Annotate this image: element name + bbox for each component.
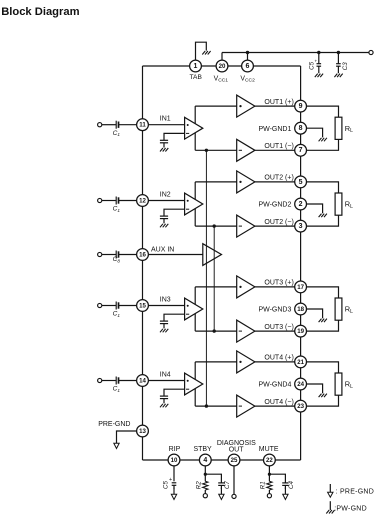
wire pin to RL (ch3) (307, 287, 339, 298)
wire TAB ground hook (196, 42, 207, 60)
op-amp AUX amp (203, 244, 222, 266)
wire RL to pin (ch4) (307, 395, 339, 406)
marker + preamp ch1 (187, 124, 189, 126)
marker - OUT4- (239, 405, 242, 407)
svg-text:4: 4 (203, 457, 207, 464)
wire cap to ground (ch3) (163, 324, 165, 329)
wire MUTE down (268, 466, 270, 481)
svg-text:Block Diagram: Block Diagram (1, 6, 79, 18)
wire terminal to C1 (ch2) (102, 200, 116, 202)
wire C4 down (284, 486, 286, 489)
wire bottom boundary edge (143, 459, 301, 461)
pin 25 DIAGNOSIS OUT (228, 454, 240, 466)
pin 14 IN4 (137, 375, 149, 387)
svg-text:RIP: RIP (169, 446, 181, 453)
svg-text:C4: C4 (288, 480, 295, 488)
wire preamp output connector (ch1) (194, 106, 196, 150)
node input terminal IN2 (98, 198, 102, 202)
wire upper rail (ch3) (195, 286, 237, 288)
svg-text:2: 2 (299, 201, 303, 208)
pin 8 PW-GND1 (295, 122, 307, 134)
marker + preamp ch3 (187, 305, 189, 307)
wire pin to RL (ch4) (307, 362, 339, 373)
svg-text:IN4: IN4 (160, 371, 171, 378)
capacitor C1 input coupling ch4 (116, 377, 118, 385)
node MUTE control terminal (267, 494, 271, 498)
svg-text:R1: R1 (259, 481, 266, 489)
ground PW-GND1 (319, 138, 327, 142)
ground PW-GND feedback ch2 (160, 224, 168, 228)
svg-text:14: 14 (139, 377, 146, 384)
svg-text:OUT4 (+): OUT4 (+) (264, 355, 293, 362)
node junction cap C5 (317, 51, 320, 54)
op-amp OUT4- power amp (237, 395, 255, 417)
ground PRE-GND at RIP (171, 488, 176, 500)
svg-text:5: 5 (299, 179, 303, 186)
svg-text:7: 7 (299, 147, 303, 154)
node STBY control terminal (203, 494, 207, 498)
wire OUT4+ to pin (255, 361, 295, 363)
capacitor feedback ch3 (160, 321, 168, 324)
op-amp OUT3+ power amp (237, 276, 255, 298)
capacitor C1 input coupling ch2 (116, 197, 118, 205)
svg-text:PW-GND2: PW-GND2 (258, 202, 291, 209)
wire cap to ground (ch2) (163, 219, 165, 224)
wire OUT3- to pin (255, 330, 295, 332)
wire lower rail (ch3) (195, 330, 237, 332)
svg-text::PW-GND: :PW-GND (334, 505, 367, 512)
op-amp OUT4+ power amp (237, 351, 255, 373)
wire OUT4- to pin (255, 405, 295, 407)
marker - preamp ch4 (186, 388, 189, 390)
wire PW-GND3 stub (307, 309, 323, 318)
capacitor feedback ch2 (160, 216, 168, 219)
svg-text:13: 13 (139, 428, 146, 435)
op-amp OUT2+ power amp (237, 171, 255, 193)
svg-text:3: 3 (299, 223, 303, 230)
svg-text:IN3: IN3 (160, 296, 171, 303)
resistor RL ch2 (335, 193, 342, 215)
op-amp preamp A3 (185, 298, 203, 320)
wire STBY to C7 (205, 474, 221, 482)
capacitor C7 (218, 483, 224, 486)
svg-text:C5: C5 (308, 61, 315, 69)
svg-text:+: + (169, 477, 172, 483)
capacitor C8 aux coupling (116, 251, 118, 259)
pin 3 OUT2- (295, 220, 307, 232)
resistor R1 (267, 481, 272, 490)
svg-text:23: 23 (297, 403, 304, 410)
pin 22 MUTE (264, 454, 276, 466)
ground PRE-GND at pin 13 (114, 442, 119, 449)
ground legend PW-GND symbol (329, 501, 331, 510)
ground PW-GND at C3 (334, 74, 342, 78)
wire terminal to C1 (ch3) (102, 305, 116, 307)
capacitor C6 ripple (169, 477, 176, 489)
pin 5 OUT2+ (295, 176, 307, 188)
node input terminal IN1 (98, 123, 102, 127)
ground PW-GND at TAB (202, 51, 210, 55)
wire pin to RL (ch2) (307, 182, 339, 193)
op-amp OUT3- power amp (237, 320, 255, 342)
wire lower rail (ch4) (195, 405, 237, 407)
wire pin 16 to aux amp (148, 254, 202, 256)
svg-text:17: 17 (297, 284, 304, 291)
wire cap to ground (ch1) (163, 143, 165, 148)
ground PW-GND feedback ch1 (160, 148, 168, 152)
svg-text:STBY: STBY (193, 446, 212, 453)
svg-text:R2: R2 (195, 481, 202, 489)
wire upper rail (ch4) (195, 361, 237, 363)
pin 10 RIP (168, 454, 180, 466)
svg-text:AUX IN: AUX IN (151, 246, 174, 253)
pin 20 Vcc1 (216, 60, 228, 72)
wire terminal to C8 (102, 254, 116, 256)
pin 15 IN3 (137, 300, 149, 312)
wire C8 to pin 16 (119, 254, 137, 256)
svg-text:OUT1 (−): OUT1 (−) (264, 143, 293, 150)
wire terminal to C1 (ch4) (102, 380, 116, 382)
wire pin to preamp + (ch2) (148, 200, 184, 202)
node junction above Vcc2 (246, 51, 249, 54)
svg-text:OUT4 (−): OUT4 (−) (264, 399, 293, 406)
pin 13 PRE-GND (137, 425, 149, 437)
node STBY junction (204, 473, 207, 476)
wire upper rail (ch2) (195, 181, 237, 183)
op-amp OUT1+ power amp (237, 95, 255, 117)
capacitor C1 input coupling ch3 (116, 302, 118, 310)
svg-text:IN2: IN2 (160, 191, 171, 198)
node input terminal IN3 (98, 303, 102, 307)
wire bus ch2 to ch3 (213, 226, 215, 331)
wire Vcc2 stub up (247, 53, 249, 61)
wire cap to ground (ch4) (163, 399, 165, 404)
marker - preamp ch2 (186, 208, 189, 210)
svg-text:11: 11 (139, 122, 146, 129)
wire OUT3+ to pin (255, 286, 295, 288)
wire RL to pin (ch2) (307, 215, 339, 226)
svg-text:PW-GND1: PW-GND1 (258, 126, 291, 133)
svg-text:OUT2 (+): OUT2 (+) (264, 175, 293, 182)
pin 19 OUT3- (295, 325, 307, 337)
marker + OUT4+ (239, 361, 241, 363)
wire preamp - input to cap (ch1) (164, 133, 185, 140)
node input terminal AUX (98, 252, 102, 256)
capacitor C1 input coupling ch1 (116, 121, 118, 129)
resistor RL ch3 (335, 298, 342, 320)
wire MUTE to C4 (269, 474, 285, 482)
resistor RL ch4 (335, 373, 342, 395)
ground PRE-GND at C7 (219, 488, 224, 500)
svg-text:PRE-GND: PRE-GND (98, 421, 130, 428)
resistor RL ch1 (335, 117, 342, 139)
svg-text:9: 9 (299, 103, 303, 110)
node supply input terminal (369, 50, 373, 54)
node bus tap ch1 (205, 149, 208, 152)
wire RL to pin (ch1) (307, 139, 339, 150)
capacitor C5 electrolytic supply (315, 53, 322, 74)
ground PRE-GND at C4 (283, 488, 288, 500)
marker - preamp ch3 (186, 313, 189, 315)
wire STBY down (204, 466, 206, 481)
wire PW-GND2 stub (307, 204, 323, 213)
ground PW-GND4 (319, 394, 327, 398)
svg-text:21: 21 (297, 359, 304, 366)
wire upper rail (ch1) (195, 105, 237, 107)
wire lower rail (ch1) (195, 149, 237, 151)
wire pin to preamp + (ch3) (148, 305, 184, 307)
svg-text:10: 10 (171, 457, 178, 464)
node input terminal IN4 (98, 378, 102, 382)
ground PW-GND3 (319, 319, 327, 323)
wire preamp output connector (ch2) (194, 182, 196, 226)
svg-text:16: 16 (139, 251, 146, 258)
pin 7 OUT1- (295, 144, 307, 156)
marker + OUT1+ (239, 105, 241, 107)
wire pin to preamp + (ch4) (148, 380, 184, 382)
wire R1 to terminal (268, 490, 270, 494)
pin 21 OUT4+ (295, 356, 307, 368)
pin 12 IN2 (137, 195, 149, 207)
svg-text:6: 6 (246, 63, 250, 70)
op-amp OUT2- power amp (237, 215, 255, 237)
pin 17 OUT3+ (295, 281, 307, 293)
svg-text:19: 19 (297, 328, 304, 335)
svg-text:25: 25 (231, 457, 238, 464)
marker + preamp ch2 (187, 200, 189, 202)
wire pin 13 to pre-gnd (117, 431, 137, 443)
wire preamp - input to cap (ch4) (164, 389, 185, 396)
ground legend PRE-GND symbol (328, 484, 333, 497)
wire PW-GND4 stub (307, 384, 323, 393)
svg-text:C7: C7 (224, 480, 231, 488)
op-amp preamp A2 (185, 193, 203, 215)
marker - OUT3- (239, 330, 242, 332)
marker + OUT3+ (239, 286, 241, 288)
marker + preamp ch4 (187, 380, 189, 382)
pin 2 PW-GND2 (295, 198, 307, 210)
pin 4 STBY (199, 454, 211, 466)
wire OUT1- to pin (255, 149, 295, 151)
node junction cap C3 (337, 51, 340, 54)
wire C7 down (220, 486, 222, 489)
node bus tap ch3 (213, 329, 216, 332)
wire pin to RL (ch1) (307, 106, 339, 117)
pin 23 OUT4- (295, 400, 307, 412)
op-amp OUT1- power amp (237, 139, 255, 161)
node bus tap ch2 (213, 224, 216, 227)
node bus tap ch4 (205, 404, 208, 407)
svg-text:C5: C5 (162, 480, 169, 488)
wire preamp output connector (ch3) (194, 287, 196, 331)
svg-text:12: 12 (139, 197, 146, 204)
wire top boundary edge (143, 65, 301, 67)
pin 9 OUT1+ (295, 100, 307, 112)
marker - OUT2- (239, 225, 242, 227)
svg-text:MUTE: MUTE (259, 446, 279, 453)
wire RL to pin (ch3) (307, 320, 339, 331)
resistor R2 (203, 481, 208, 490)
wire C1 to pin (ch4) (119, 380, 137, 382)
op-amp preamp A1 (185, 117, 203, 139)
op-amp preamp A4 (185, 373, 203, 395)
svg-text:15: 15 (139, 302, 146, 309)
svg-text:1: 1 (194, 63, 198, 70)
pin 6 Vcc2 (242, 60, 254, 72)
capacitor C3 supply (336, 53, 341, 74)
pin 1 TAB (190, 60, 202, 72)
wire preamp output connector (ch4) (194, 362, 196, 406)
pin 24 PW-GND4 (295, 378, 307, 390)
svg-text:22: 22 (266, 457, 273, 464)
node diagnosis terminal (232, 494, 236, 498)
svg-text:OUT: OUT (229, 447, 245, 454)
svg-text:OUT3 (+): OUT3 (+) (264, 280, 293, 287)
ground PW-GND at C5 (315, 74, 323, 78)
wire C1 to pin (ch3) (119, 305, 137, 307)
wire supply rail (222, 52, 371, 54)
wire pin to preamp + (ch1) (148, 124, 184, 126)
marker - preamp ch1 (186, 132, 189, 134)
wire RIP down (173, 466, 175, 481)
capacitor feedback ch1 (160, 140, 168, 143)
wire PW-GND1 stub (307, 128, 323, 137)
pin 18 PW-GND3 (295, 303, 307, 315)
marker + OUT2+ (239, 181, 241, 183)
svg-text:OUT2 (−): OUT2 (−) (264, 219, 293, 226)
svg-text:24: 24 (297, 381, 304, 388)
wire C1 to pin (ch1) (119, 124, 137, 126)
ground PW-GND feedback ch3 (160, 329, 168, 333)
wire Vcc1 stub up (221, 53, 223, 61)
wire preamp - input to cap (ch3) (164, 314, 185, 321)
svg-text:20: 20 (219, 63, 226, 70)
wire OUT1+ to pin (255, 105, 295, 107)
ground PW-GND feedback ch4 (160, 404, 168, 408)
svg-text:OUT1 (+): OUT1 (+) (264, 99, 293, 106)
svg-text:: PRE-GND: : PRE-GND (336, 488, 374, 495)
svg-text:18: 18 (297, 306, 304, 313)
marker - OUT1- (239, 149, 242, 151)
capacitor feedback ch4 (160, 396, 168, 399)
pin 11 IN1 (137, 119, 149, 131)
ground PW-GND2 (319, 214, 327, 218)
svg-text:PW-GND3: PW-GND3 (258, 307, 291, 314)
svg-text:PW-GND4: PW-GND4 (258, 382, 291, 389)
wire DIAGNOSIS OUT down (233, 466, 235, 495)
svg-text:IN1: IN1 (160, 116, 171, 123)
wire C1 to pin (ch2) (119, 200, 137, 202)
wire bus ch1 to ch4 (205, 150, 207, 406)
wire lower rail (ch2) (195, 225, 237, 227)
svg-text:TAB: TAB (190, 74, 203, 81)
svg-text:OUT3 (−): OUT3 (−) (264, 324, 293, 331)
wire preamp - input to cap (ch2) (164, 209, 185, 216)
wire left boundary bus (142, 66, 144, 460)
svg-text:8: 8 (299, 125, 303, 132)
wire R2 to terminal (204, 490, 206, 494)
pin 16 AUX IN (137, 249, 149, 261)
wire OUT2+ to pin (255, 181, 295, 183)
wire right boundary bus (300, 66, 302, 460)
node MUTE junction (268, 473, 271, 476)
svg-text:C3: C3 (342, 62, 349, 70)
wire OUT2- to pin (255, 225, 295, 227)
wire terminal to C1 (ch1) (102, 124, 116, 126)
capacitor C4 (282, 483, 288, 486)
